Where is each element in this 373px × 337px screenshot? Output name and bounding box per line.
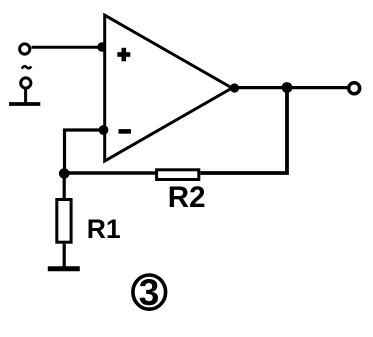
node feedback junction (59, 168, 70, 179)
svg-text:R1: R1 (87, 214, 121, 244)
op-amp U1 (105, 15, 232, 161)
node - input junction (99, 125, 109, 135)
ground (R1 side) (48, 266, 80, 271)
wire R1 to ground (63, 244, 66, 267)
resistor R1 (57, 200, 71, 243)
wire feedback node to R2 (64, 171, 156, 175)
wire feedback node down to R1 (63, 173, 66, 200)
wire - input to feedback node (65, 130, 104, 174)
node + input junction (97, 42, 107, 52)
ground (input side) (9, 102, 40, 106)
wire op-amp output to terminal (232, 86, 348, 89)
input terminal J1 (20, 44, 30, 54)
svg-text:3: 3 (139, 272, 160, 313)
node output junction (282, 82, 293, 93)
AC source terminal (21, 78, 31, 88)
wire R2 to output junction (200, 88, 287, 173)
output terminal J2 (349, 83, 360, 94)
node op-amp output apex (230, 83, 239, 92)
resistor R2 (157, 170, 199, 180)
svg-text:R2: R2 (168, 181, 206, 214)
wire AC source to ground (24, 89, 27, 103)
figure number circle (133, 275, 166, 309)
AC source tilde (22, 66, 31, 68)
wire input to op-amp + (32, 46, 105, 49)
